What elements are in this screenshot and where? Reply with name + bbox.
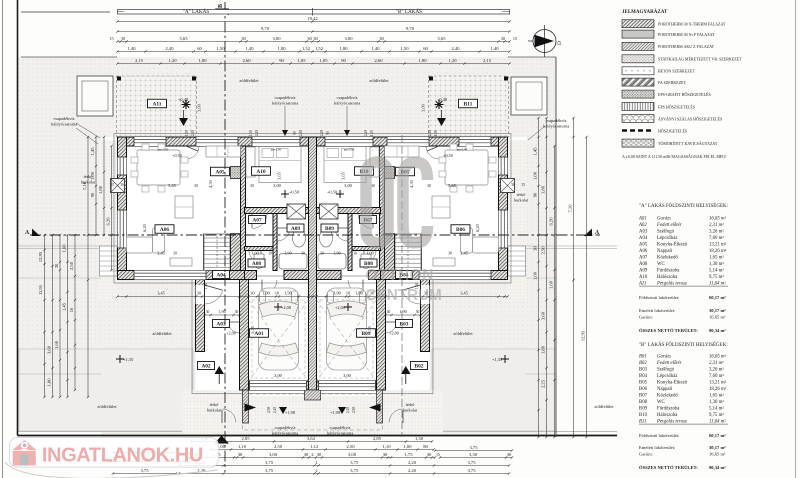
svg-text:30: 30 xyxy=(250,184,254,188)
svg-text:zöldfelület: zöldfelület xyxy=(239,78,259,83)
wall garage B east xyxy=(377,280,386,391)
svg-text:B06: B06 xyxy=(639,387,648,392)
left dim column upper 2 xyxy=(103,137,105,235)
legend swatch TÖMÖRÍTETT KAVICSÁGYAZAT xyxy=(622,139,654,147)
svg-text:A11: A11 xyxy=(638,282,646,287)
tv cabinet A xyxy=(170,258,192,266)
svg-text:11,64 m²: 11,64 m² xyxy=(709,281,726,287)
door arc B03 to garage xyxy=(386,321,398,323)
wall entry strip east (B) xyxy=(421,280,430,352)
entry strip dims A xyxy=(205,314,240,316)
svg-text:30: 30 xyxy=(507,452,512,457)
stair partition line A xyxy=(203,234,205,271)
svg-text:"A" LAKÁS FÖLDSZINTI HELYISÉGE: "A" LAKÁS FÖLDSZINTI HELYISÉGEK: xyxy=(639,203,728,209)
garage door B xyxy=(319,381,376,390)
svg-text:A10: A10 xyxy=(256,169,266,175)
right dim column 1 xyxy=(538,118,540,437)
svg-text:30: 30 xyxy=(173,252,177,256)
svg-text:30: 30 xyxy=(307,36,312,41)
svg-text:1,65 m²: 1,65 m² xyxy=(709,393,724,399)
svg-text:15: 15 xyxy=(521,183,525,187)
garage B apron dashed xyxy=(320,300,373,378)
svg-text:B03: B03 xyxy=(400,322,409,328)
legend swatch FA SZERKEZET xyxy=(622,78,654,86)
site boundary bottom thick xyxy=(18,435,618,437)
wall under bedroom B xyxy=(317,208,381,214)
section marker A left xyxy=(32,229,40,237)
car in garage A xyxy=(259,288,299,370)
svg-text:10: 10 xyxy=(69,307,74,312)
svg-text:90,34 m²: 90,34 m² xyxy=(709,328,726,333)
svg-text:A02: A02 xyxy=(638,223,647,228)
svg-text:Földszinti lakóterület:: Földszinti lakóterület: xyxy=(639,295,679,300)
svg-text:Nappali: Nappali xyxy=(657,387,673,392)
door arc living B north xyxy=(427,146,439,151)
garden wall line right xyxy=(508,245,618,247)
svg-text:Garázs:: Garázs: xyxy=(639,315,653,320)
bath sink A xyxy=(293,229,306,247)
svg-text:BETON SZERKEZET: BETON SZERKEZET xyxy=(658,69,695,74)
svg-text:2,31 m²: 2,31 m² xyxy=(709,222,724,228)
wall kitchen/bedroom divider B xyxy=(380,146,385,271)
window north kitchen B xyxy=(387,137,429,146)
door arc A03 to garage xyxy=(228,321,240,323)
bath sink B xyxy=(320,229,333,247)
svg-text:Közlekedő: Közlekedő xyxy=(657,256,678,261)
window west living A lower xyxy=(118,210,127,248)
svg-text:B10: B10 xyxy=(639,413,648,418)
garage A dashed X xyxy=(249,300,309,381)
svg-text:A: A xyxy=(25,230,30,236)
svg-text:Lépcsőház: Lépcsőház xyxy=(657,236,678,241)
down arrow A11 xyxy=(179,118,188,126)
section line A-A horizontal xyxy=(30,234,600,236)
svg-text:90: 90 xyxy=(532,192,537,197)
svg-text:30: 30 xyxy=(387,310,391,314)
site boundary top-left segment xyxy=(21,11,110,13)
kitchen counter B xyxy=(385,146,420,157)
svg-text:B11: B11 xyxy=(464,102,473,108)
svg-text:térkő: térkő xyxy=(210,402,219,407)
left dim column 5 xyxy=(74,235,76,390)
pergola terrace B11 grid xyxy=(429,76,509,137)
svg-text:1,65 m²: 1,65 m² xyxy=(709,255,724,261)
svg-text:30,17 m²: 30,17 m² xyxy=(709,445,726,450)
legend swatch POROTHERM AKU Z FALAZAT xyxy=(622,42,654,50)
svg-text:A03: A03 xyxy=(639,230,648,235)
terrace door south living B xyxy=(419,271,491,280)
wall kitchen/bedroom divider A xyxy=(241,146,246,271)
svg-text:A10: A10 xyxy=(639,275,648,280)
entry arrow A02 xyxy=(215,366,225,374)
porch gate arc B xyxy=(402,410,404,423)
level star B11 xyxy=(435,100,444,109)
svg-text:B04: B04 xyxy=(639,374,648,379)
svg-text:15: 15 xyxy=(436,453,440,457)
window north bedroom B xyxy=(325,137,373,146)
left dim column upper 1 xyxy=(95,137,97,235)
bottom dim row 4 xyxy=(179,465,509,467)
svg-text:30: 30 xyxy=(379,36,384,41)
svg-text:térkő: térkő xyxy=(406,402,415,407)
wall south center B-right xyxy=(369,271,381,280)
wall upper block south-west segment xyxy=(118,271,245,280)
room label B09 xyxy=(321,224,338,232)
svg-text:A03: A03 xyxy=(216,322,226,328)
legend swatch EPS-GRAFIT HŐSZIGETELÉS xyxy=(622,90,654,98)
svg-text:13,21 m²: 13,21 m² xyxy=(709,380,727,386)
svg-text:zöldfelület: zöldfelület xyxy=(594,404,614,409)
svg-text:térkő: térkő xyxy=(517,192,526,197)
right dim column 5 xyxy=(586,235,588,437)
svg-text:zöldfelület: zöldfelület xyxy=(453,331,473,336)
svg-text:A: A xyxy=(595,230,600,236)
svg-text:A04: A04 xyxy=(639,236,648,241)
watermark OC logo xyxy=(366,162,428,243)
right dim column 4 xyxy=(573,118,575,437)
svg-text:B07: B07 xyxy=(639,394,648,399)
stairs B treads xyxy=(395,234,421,271)
wall entry strip west (A) xyxy=(196,280,205,352)
section marker A right xyxy=(584,229,592,237)
wall corridor/bath divider B xyxy=(348,214,352,271)
room label A10 xyxy=(252,167,271,176)
garage A apron dashed xyxy=(252,300,305,378)
svg-text:30: 30 xyxy=(383,452,388,457)
left dim column 4 xyxy=(67,235,69,397)
entry door B xyxy=(421,285,430,304)
sofa A xyxy=(127,237,153,253)
svg-text:30: 30 xyxy=(304,452,309,457)
upper block floor white xyxy=(118,137,508,280)
svg-text:80: 80 xyxy=(423,444,428,449)
svg-text:Emeleti lakóterület:: Emeleti lakóterület: xyxy=(639,445,675,450)
bed B xyxy=(324,147,366,183)
room label B01 xyxy=(357,329,376,338)
garden retaining line bottom-left xyxy=(18,373,102,375)
svg-text:5,14 m²: 5,14 m² xyxy=(709,406,724,412)
svg-text:30: 30 xyxy=(206,310,210,314)
porch gate arc A xyxy=(221,410,223,423)
toilet B xyxy=(361,256,371,269)
svg-text:Garázs: Garázs xyxy=(657,217,671,222)
room label B11 xyxy=(459,99,478,108)
svg-text:D: D xyxy=(557,41,563,45)
dimension row openings xyxy=(118,51,510,53)
svg-text:30: 30 xyxy=(241,36,246,41)
svg-text:30: 30 xyxy=(427,452,432,457)
svg-text:30: 30 xyxy=(54,263,59,268)
left dim column 6,20 xyxy=(111,146,113,270)
window east living B lower xyxy=(499,210,508,248)
door arc bath A xyxy=(277,227,290,229)
svg-text:30: 30 xyxy=(532,246,537,251)
svg-text:B06: B06 xyxy=(456,227,465,233)
legend swatch POROTHERM 30 X-THERM FALAZAT xyxy=(622,20,654,28)
svg-text:A04: A04 xyxy=(216,273,226,279)
paved strip right of house xyxy=(508,140,527,300)
wall garage front south xyxy=(249,381,377,390)
garden line left lower xyxy=(18,277,102,279)
porch side wall B xyxy=(377,390,383,423)
lawn panel bottom-right xyxy=(432,349,556,431)
svg-text:csapadékvíz: csapadékvíz xyxy=(275,95,296,100)
svg-text:90: 90 xyxy=(293,131,297,135)
svg-text:10: 10 xyxy=(268,252,272,256)
door arc bedroom A xyxy=(251,214,253,229)
toilet A xyxy=(254,256,264,269)
svg-text:30: 30 xyxy=(320,252,324,256)
entry arrow B02 xyxy=(401,366,411,374)
svg-text:csapadékvíz: csapadékvíz xyxy=(54,116,75,121)
svg-text:3,26 m²: 3,26 m² xyxy=(709,367,724,373)
svg-text:9,75 m²: 9,75 m² xyxy=(709,412,724,418)
svg-text:B02: B02 xyxy=(639,361,647,366)
svg-text:9,75 m²: 9,75 m² xyxy=(709,274,724,280)
svg-text:60: 60 xyxy=(423,46,428,51)
svg-text:Konyha-Étkező: Konyha-Étkező xyxy=(657,242,688,248)
svg-text:lefolyócsatorna: lefolyócsatorna xyxy=(51,122,78,127)
svg-text:30: 30 xyxy=(501,36,505,41)
room label A08 xyxy=(248,259,265,267)
svg-text:16,65 m²: 16,65 m² xyxy=(709,216,726,222)
svg-text:POROTHERM AKU Z FALAZAT: POROTHERM AKU Z FALAZAT xyxy=(658,44,715,49)
door arc house to garage A xyxy=(261,280,263,295)
dimension row walls xyxy=(118,41,510,43)
svg-text:60,17 m²: 60,17 m² xyxy=(709,295,726,300)
svg-text:lefolyócsatorna: lefolyócsatorna xyxy=(272,101,299,106)
dining table B xyxy=(445,150,488,185)
svg-text:Emeleti lakóterület:: Emeleti lakóterület: xyxy=(639,308,675,313)
svg-text:A09: A09 xyxy=(639,269,648,274)
door arc house to garage B xyxy=(362,280,364,295)
svg-text:Garázs:: Garázs: xyxy=(639,452,653,457)
stairs A arrow xyxy=(216,236,218,268)
bottom-left dim row a xyxy=(113,452,190,454)
room label A07 xyxy=(249,216,266,224)
porch side wall A xyxy=(243,390,249,423)
lawn panel bottom-left xyxy=(19,349,193,431)
svg-text:B03: B03 xyxy=(639,368,648,373)
dimension row 9,70 xyxy=(118,31,510,33)
party wall center xyxy=(309,137,317,390)
paved strip left of house xyxy=(99,140,118,300)
svg-text:A01: A01 xyxy=(638,217,647,222)
pergola terrace A11 grid xyxy=(117,76,197,137)
svg-text:B09: B09 xyxy=(325,226,334,232)
room label A05 xyxy=(211,167,230,176)
wall south center A-left xyxy=(245,271,257,280)
wall corridor/bath divider A xyxy=(273,214,277,271)
svg-text:30: 30 xyxy=(238,452,243,457)
lower block floor white xyxy=(196,280,430,391)
svg-text:burkolat: burkolat xyxy=(207,408,222,413)
garage door A xyxy=(250,381,307,390)
svg-text:30: 30 xyxy=(197,291,201,296)
svg-text:STATIKAILAG MÉRETEZETT VB. SZE: STATIKAILAG MÉRETEZETT VB. SZERKEZET xyxy=(658,57,742,62)
svg-text:7,60 m²: 7,60 m² xyxy=(709,235,724,241)
pergola posts B11 xyxy=(429,77,433,81)
secondary axis dashed xyxy=(401,135,403,437)
svg-text:7,60 m²: 7,60 m² xyxy=(709,373,724,379)
terrace steps east xyxy=(508,246,526,276)
right dim column 2 xyxy=(546,118,548,437)
svg-text:A08: A08 xyxy=(639,262,648,267)
svg-text:2: 2 xyxy=(316,469,318,473)
sheet right edge line xyxy=(795,0,797,478)
room label B08 xyxy=(360,259,377,267)
svg-text:lefolyócsatorna: lefolyócsatorna xyxy=(272,431,299,436)
svg-text:burkolat: burkolat xyxy=(514,198,529,203)
wall WC north B xyxy=(352,247,381,251)
wall WC north A xyxy=(245,247,274,251)
svg-text:Közlekedő: Közlekedő xyxy=(657,394,678,399)
garden line right lower xyxy=(526,277,556,279)
svg-text:15: 15 xyxy=(513,36,517,41)
svg-text:A08: A08 xyxy=(252,261,262,267)
logo house icon xyxy=(12,440,36,466)
svg-text:Szélfogó: Szélfogó xyxy=(657,230,675,235)
room label A04 xyxy=(213,271,230,279)
svg-text:2: 2 xyxy=(316,461,318,465)
svg-text:Földszinti lakóterület:: Földszinti lakóterület: xyxy=(639,433,679,438)
bottom dim row 5 left ext xyxy=(113,473,176,475)
garage B dashed X xyxy=(317,300,377,381)
svg-text:90: 90 xyxy=(341,58,346,63)
bed A xyxy=(259,147,301,183)
party wall foot stub xyxy=(305,390,321,400)
svg-text:B02: B02 xyxy=(415,364,424,370)
right dim column 3 xyxy=(554,146,556,437)
svg-text:Pergolás terasz: Pergolás terasz xyxy=(656,420,687,425)
legend swatch EPS HŐSZIGETELÉS xyxy=(622,103,654,111)
svg-text:Nappali: Nappali xyxy=(657,249,673,254)
svg-text:ÖSSZES NETTÓ TERÜLET:: ÖSSZES NETTÓ TERÜLET: xyxy=(639,465,698,470)
room label B07 xyxy=(360,216,377,224)
room label A11 xyxy=(148,99,167,108)
svg-text:EPS HŐSZIGETELÉS: EPS HŐSZIGETELÉS xyxy=(658,104,695,109)
svg-text:B05: B05 xyxy=(639,381,648,386)
svg-text:A06: A06 xyxy=(639,249,648,254)
svg-text:30: 30 xyxy=(317,452,322,457)
svg-text:30: 30 xyxy=(511,183,515,187)
window west living A upper xyxy=(118,157,127,175)
svg-text:A01: A01 xyxy=(254,331,264,337)
stair partition line B xyxy=(421,234,423,271)
svg-text:Fürdőszoba: Fürdőszoba xyxy=(657,407,680,412)
north arrow xyxy=(528,25,556,57)
svg-text:JELMAGYARÁZAT: JELMAGYARÁZAT xyxy=(622,9,668,15)
svg-text:A07: A07 xyxy=(639,256,648,261)
paved entry walk bottom-left xyxy=(182,390,248,437)
svg-text:B08: B08 xyxy=(639,400,648,405)
down arrow B11 xyxy=(437,118,446,126)
svg-text:ÖSSZES NETTÓ TERÜLET:: ÖSSZES NETTÓ TERÜLET: xyxy=(639,328,698,333)
svg-text:30,17 m²: 30,17 m² xyxy=(709,308,726,313)
wall upper block south-east segment xyxy=(381,271,508,280)
left dim column outer xyxy=(44,235,46,397)
svg-text:A09: A09 xyxy=(291,226,301,232)
dining table A xyxy=(137,150,180,185)
wall beside stair B xyxy=(385,234,395,271)
top bracket A/B LAKAS xyxy=(118,10,510,15)
svg-text:B: B xyxy=(218,4,224,8)
svg-text:10: 10 xyxy=(275,291,279,296)
bottom dim row 5 xyxy=(179,473,509,475)
stairs B arrow xyxy=(407,236,409,268)
left dim column 2 xyxy=(52,235,54,397)
room label A09 xyxy=(287,224,304,232)
room label B05 xyxy=(396,167,415,176)
bottom dim row 1 xyxy=(191,441,432,443)
svg-text:10: 10 xyxy=(346,291,350,296)
svg-text:90: 90 xyxy=(279,58,284,63)
legend swatch HŐSZIGETELÉS xyxy=(622,129,654,132)
site boundary right line xyxy=(555,57,557,437)
garden wall line left xyxy=(18,245,102,247)
svg-text:15: 15 xyxy=(110,183,114,187)
window north bedroom A xyxy=(252,137,300,146)
room label B06 xyxy=(451,225,470,234)
site boundary north line xyxy=(21,56,117,58)
svg-text:Fedett előtér: Fedett előtér xyxy=(656,361,682,366)
level star A11 xyxy=(182,100,191,109)
svg-text:EPS-GRAFIT HŐSZIGETELÉS: EPS-GRAFIT HŐSZIGETELÉS xyxy=(658,92,711,97)
svg-text:burkolat: burkolat xyxy=(403,408,418,413)
svg-text:FA SZERKEZET: FA SZERKEZET xyxy=(658,80,687,85)
void shaft B with X xyxy=(320,204,339,219)
garden retaining line bottom-right xyxy=(526,373,556,375)
wall south center middle xyxy=(284,271,341,280)
garden area bottom-left wing xyxy=(101,280,196,438)
wall garage A west xyxy=(240,280,249,391)
svg-text:B11: B11 xyxy=(639,420,646,425)
svg-text:Szélfogó: Szélfogó xyxy=(657,368,675,373)
room label B04 xyxy=(396,271,413,279)
room label A01 xyxy=(250,329,269,338)
door arc bedroom B xyxy=(372,214,374,229)
svg-text:11,64 m²: 11,64 m² xyxy=(709,419,726,425)
room label B02 xyxy=(411,362,428,370)
tv cabinet B xyxy=(433,258,455,266)
left dim column tall xyxy=(87,137,89,397)
door arc bath B xyxy=(335,227,348,229)
entry strip dims B xyxy=(386,314,421,316)
svg-text:30: 30 xyxy=(427,184,431,188)
svg-text:"B" LAKÁS: "B" LAKÁS xyxy=(396,7,422,15)
paved entry walk bottom-right xyxy=(377,390,443,437)
section marker B bottom xyxy=(215,436,230,444)
svg-text:30: 30 xyxy=(250,291,254,296)
svg-text:HŐSZIGETELÉS: HŐSZIGETELÉS xyxy=(658,128,687,133)
void shaft A with X xyxy=(287,204,306,219)
entry door A xyxy=(196,285,205,304)
svg-text:Fedett előtér: Fedett előtér xyxy=(656,223,682,228)
section line B-B vertical xyxy=(224,2,226,472)
garden area left strip xyxy=(18,57,102,431)
planter box right xyxy=(511,77,547,115)
svg-text:A07: A07 xyxy=(252,218,262,224)
central walkway paving xyxy=(248,396,377,437)
svg-text:"B" LAKÁS FÖLDSZINTI HELYISÉGE: "B" LAKÁS FÖLDSZINTI HELYISÉGEK: xyxy=(639,342,728,348)
legend swatch STATIKAILAG MÉRETEZETT VB. SZERKEZET xyxy=(622,55,654,63)
wardrobe A xyxy=(246,147,255,177)
svg-text:16,65 m²: 16,65 m² xyxy=(709,354,726,360)
svg-text:30: 30 xyxy=(313,36,318,41)
bottom dim row 3 xyxy=(190,457,435,459)
svg-text:lefolyócsatorna: lefolyócsatorna xyxy=(327,431,354,436)
garden area top strip xyxy=(21,57,556,137)
